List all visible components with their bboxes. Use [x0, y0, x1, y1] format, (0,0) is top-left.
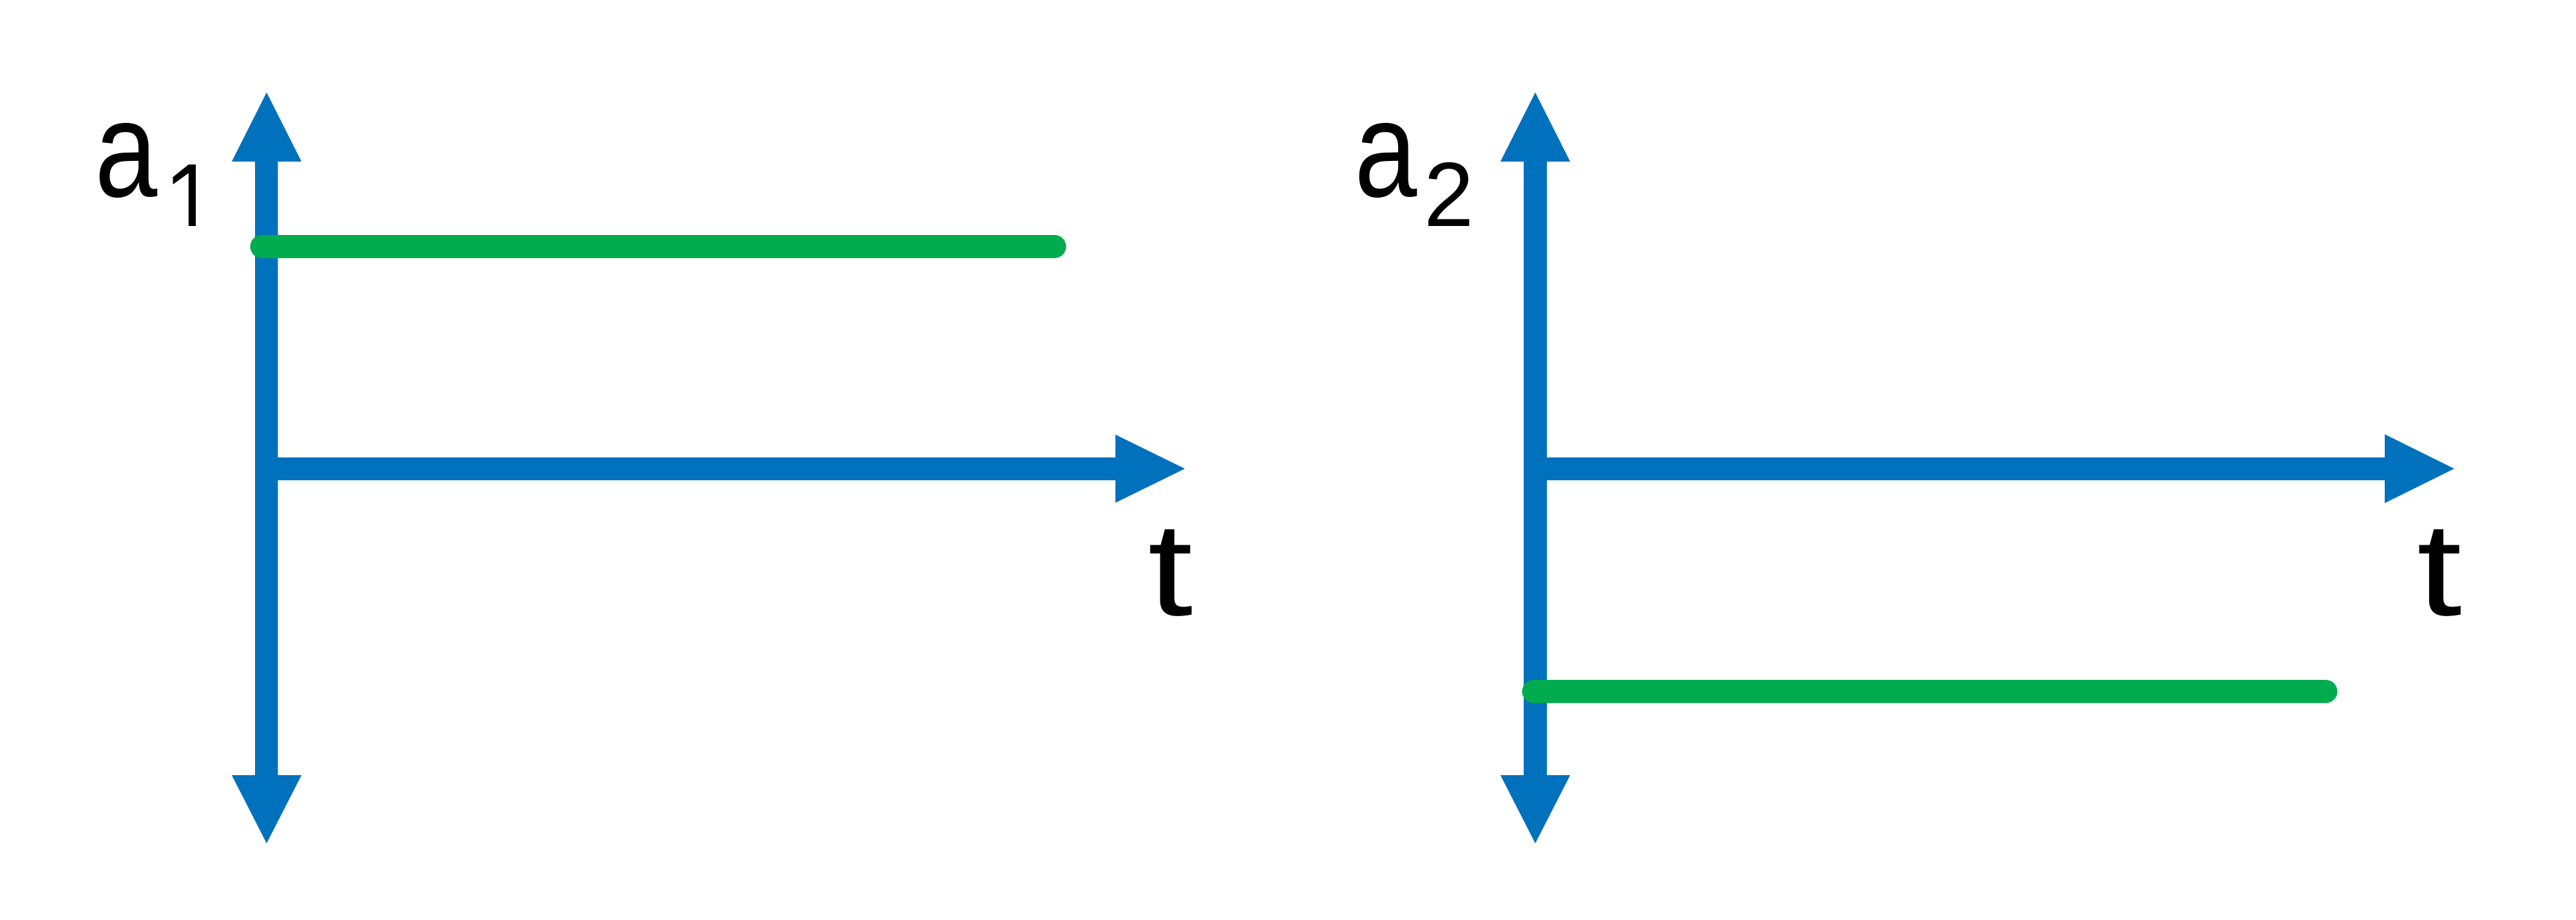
left graph vertical axis down arrowhead — [232, 775, 301, 843]
right graph horizontal t-axis shaft — [1524, 458, 2385, 481]
left graph horizontal t-axis right arrowhead — [1115, 435, 1185, 503]
right graph vertical axis (a2) shaft — [1524, 160, 1547, 778]
right graph horizontal t-axis right arrowhead — [2385, 435, 2454, 503]
left graph axis label a1: subscript 1 — [173, 165, 196, 227]
right graph vertical axis down arrowhead — [1501, 775, 1570, 843]
svg-text:t: t — [2417, 495, 2462, 643]
svg-text:a: a — [1354, 73, 1417, 226]
left graph green data line (constant positive a1) — [262, 235, 1055, 258]
left graph vertical axis (a1) shaft — [255, 160, 278, 778]
right graph vertical axis up arrowhead — [1501, 93, 1570, 162]
left graph vertical axis up arrowhead — [232, 93, 301, 162]
svg-text:a: a — [95, 73, 157, 226]
right graph green data line (constant negative a2) — [1534, 680, 2326, 703]
svg-text:2: 2 — [1424, 144, 1473, 246]
left graph horizontal t-axis shaft — [255, 458, 1116, 481]
svg-text:t: t — [1148, 495, 1193, 643]
